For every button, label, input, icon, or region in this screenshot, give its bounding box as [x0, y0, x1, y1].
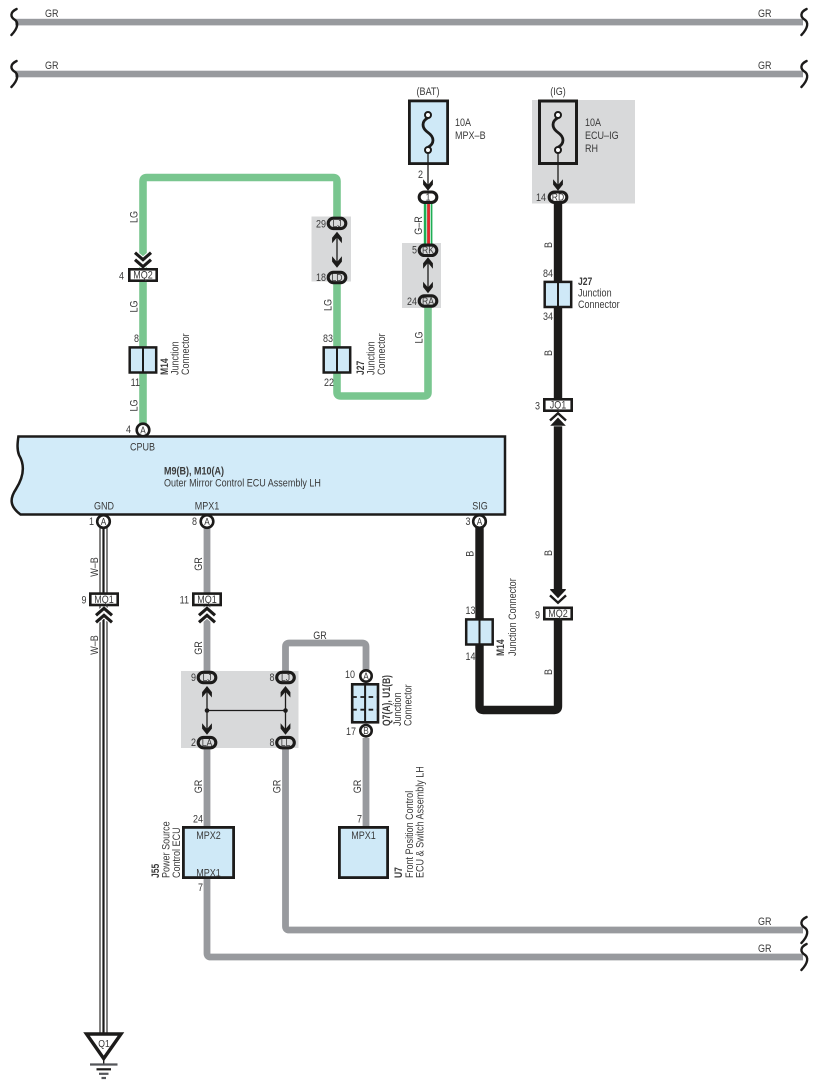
- svg-text:4: 4: [119, 271, 124, 283]
- svg-text:LJ: LJ: [332, 218, 341, 230]
- break symbol exit 1: [801, 917, 807, 943]
- svg-text:(IG): (IG): [550, 86, 566, 98]
- link bar between columns: [207, 710, 286, 712]
- svg-text:22: 22: [324, 377, 334, 389]
- svg-text:B: B: [543, 550, 555, 556]
- svg-text:4: 4: [126, 424, 131, 436]
- svg-text:MQ2: MQ2: [548, 608, 568, 620]
- svg-text:LD: LD: [332, 272, 343, 284]
- break symbol bus2 right: [801, 61, 807, 87]
- svg-text:LG: LG: [128, 301, 140, 313]
- break symbol bus2 left: [11, 61, 17, 87]
- junction dot right: [283, 708, 288, 713]
- svg-text:ECU & Switch Assembly LH: ECU & Switch Assembly LH: [415, 766, 427, 878]
- svg-text:9: 9: [82, 595, 87, 607]
- ground symbol Q1: [87, 1034, 122, 1078]
- svg-text:MQ1: MQ1: [94, 594, 114, 606]
- junction connector Q7(A), U1(B): [352, 684, 378, 722]
- svg-text:3: 3: [535, 401, 540, 413]
- arrow into oval 1: [423, 179, 433, 191]
- box JQ1: [544, 399, 571, 410]
- svg-text:B: B: [543, 350, 555, 356]
- label M14 Junction Connector (rotated, right M14): [495, 578, 519, 656]
- fuse box IG 10A ECU-IG RH: [540, 101, 577, 164]
- svg-text:W–B: W–B: [89, 557, 101, 577]
- wire LG from CPUB pin up/over to LJ: [143, 178, 337, 431]
- svg-text:9: 9: [535, 610, 540, 622]
- arrow down to LL: [281, 723, 291, 735]
- svg-text:J27: J27: [578, 276, 592, 288]
- break symbol exit 2: [801, 944, 807, 970]
- wire GR from LJ(8) up over to Q7 A: [286, 643, 367, 672]
- svg-text:24: 24: [193, 814, 203, 826]
- svg-text:10A: 10A: [585, 117, 602, 129]
- svg-text:34: 34: [543, 311, 553, 323]
- svg-text:A: A: [477, 517, 483, 528]
- svg-text:GR: GR: [193, 557, 205, 571]
- svg-text:A: A: [101, 517, 107, 528]
- ECU box M9(B) M10(A): [12, 437, 505, 515]
- wire lead from fuse BAT: [427, 152, 429, 185]
- wire B from RD down to corner and over to SIG leg: [480, 204, 559, 710]
- wire GR bus 1 (top): [15, 19, 803, 26]
- shading block LJ/LD connector: [312, 217, 352, 282]
- svg-text:GR: GR: [313, 630, 327, 642]
- svg-text:B: B: [543, 242, 555, 248]
- label J55 Power Source Control ECU (rotated): [150, 821, 183, 878]
- svg-text:MQ1: MQ1: [197, 594, 217, 606]
- svg-text:10: 10: [345, 669, 355, 681]
- svg-text:(BAT): (BAT): [417, 86, 440, 98]
- chevron into MQ2 (down): [135, 253, 151, 267]
- svg-text:SIG: SIG: [472, 501, 488, 513]
- svg-text:Control ECU: Control ECU: [171, 827, 183, 878]
- svg-text:A: A: [140, 426, 146, 437]
- svg-text:Connector: Connector: [578, 299, 620, 311]
- svg-text:13: 13: [466, 605, 476, 617]
- box MQ1 MPX1 wire: [193, 594, 220, 605]
- svg-text:9: 9: [191, 672, 196, 684]
- svg-text:14: 14: [466, 651, 476, 663]
- fuse box BAT 10A MPX-B: [409, 101, 447, 164]
- box J55 Power Source Control ECU: [183, 827, 233, 877]
- svg-text:GR: GR: [758, 916, 772, 928]
- svg-text:Junction: Junction: [578, 288, 612, 300]
- shading block RK/RA connector: [402, 243, 441, 308]
- svg-text:MPX2: MPX2: [196, 830, 221, 842]
- wire link LJ-LA thin: [206, 689, 208, 732]
- svg-text:Q1: Q1: [98, 1038, 110, 1050]
- svg-text:24: 24: [407, 296, 417, 308]
- svg-text:GR: GR: [758, 60, 772, 72]
- svg-text:RH: RH: [585, 143, 598, 155]
- svg-text:8: 8: [192, 516, 197, 528]
- wire GR MPX1 from pin to LJ: [204, 528, 211, 672]
- svg-text:10A: 10A: [455, 117, 472, 129]
- svg-text:LG: LG: [128, 211, 140, 223]
- pin circle A CPUB: [137, 424, 150, 437]
- svg-text:M9(B), M10(A): M9(B), M10(A): [164, 466, 224, 478]
- svg-text:MPX1: MPX1: [196, 868, 221, 880]
- svg-text:A: A: [363, 671, 369, 682]
- svg-text:3: 3: [466, 516, 471, 528]
- junction connector M14 (right, SIG leg): [466, 619, 493, 644]
- svg-text:LJ: LJ: [281, 672, 290, 684]
- label Q7(A), U1(B) Junction Connector (rotated): [381, 675, 415, 726]
- chevron below MQ1 on MPX1 (up): [199, 608, 215, 622]
- svg-text:18: 18: [316, 272, 326, 284]
- arrow up to LJ(8): [281, 686, 291, 698]
- svg-text:RD: RD: [552, 192, 565, 204]
- oval LJ (8): [277, 672, 295, 682]
- svg-text:1: 1: [89, 516, 94, 528]
- svg-text:17: 17: [346, 726, 356, 738]
- oval LJ (29): [328, 218, 346, 228]
- svg-text:MPX1: MPX1: [351, 830, 376, 842]
- junction connector J27 (left): [324, 347, 351, 372]
- label J27 Junction Connector (horizontal): [578, 276, 620, 311]
- svg-text:ECU–IG: ECU–IG: [585, 130, 619, 142]
- svg-text:2: 2: [191, 737, 196, 749]
- svg-text:M14: M14: [495, 639, 507, 656]
- arrow pair between LJ and LD: [336, 234, 338, 265]
- svg-text:LG: LG: [322, 299, 334, 311]
- chevron above MQ2 (down): wire break, arrow-cut wire end, thin chevron: [550, 589, 566, 607]
- wire W-B from GND pin to ground: [100, 528, 108, 1034]
- break symbol bus1 right: [801, 9, 807, 35]
- svg-text:LJ: LJ: [202, 672, 211, 684]
- svg-text:W–B: W–B: [89, 635, 101, 655]
- box MQ2 green wire: [129, 269, 156, 280]
- oval LD (18): [328, 272, 346, 282]
- box MQ1 GND wire: [90, 594, 117, 605]
- svg-text:B: B: [465, 551, 477, 557]
- svg-text:GR: GR: [271, 780, 283, 794]
- junction connector M14 (left): [130, 347, 157, 372]
- wire GR from J55 MPX1 down and right to edge: [207, 877, 803, 957]
- svg-text:G–R: G–R: [413, 216, 425, 235]
- wire link LJ-LL thin: [285, 689, 287, 732]
- svg-text:RA: RA: [422, 295, 434, 307]
- wire GR from Q7 B down to U7: [363, 738, 370, 828]
- junction connector J27 (right): [545, 282, 572, 307]
- label M14 Junction Connector (rotated): [159, 333, 192, 375]
- svg-text:8: 8: [270, 737, 275, 749]
- svg-text:CPUB: CPUB: [130, 442, 155, 454]
- wire GR from LL down and right to edge: [286, 746, 804, 930]
- svg-text:LL: LL: [281, 737, 291, 749]
- svg-text:Connector: Connector: [403, 684, 415, 726]
- fuse element IG: [553, 112, 563, 153]
- svg-text:2: 2: [418, 169, 423, 181]
- svg-text:LG: LG: [128, 400, 140, 412]
- label U7 Front Position Control ECU & Switch Assembly LH (rotated): [393, 766, 427, 878]
- fuse element BAT: [423, 112, 433, 153]
- oval LJ (9): [198, 672, 216, 682]
- oval RD (14): [549, 192, 567, 202]
- svg-text:83: 83: [323, 333, 333, 345]
- svg-text:8: 8: [134, 333, 139, 345]
- box MQ2 black wire: [544, 608, 571, 619]
- svg-text:7: 7: [357, 814, 362, 826]
- wire G-R striped red stripe: [427, 197, 430, 247]
- wire LG from LD down through J27 over to RA: [337, 283, 428, 396]
- junction dot left: [205, 708, 210, 713]
- svg-text:MPX1: MPX1: [195, 501, 220, 513]
- oval RA (24): [419, 296, 437, 306]
- svg-text:GR: GR: [758, 943, 772, 955]
- svg-text:GR: GR: [352, 780, 364, 794]
- svg-text:Connector: Connector: [180, 333, 192, 375]
- svg-text:14: 14: [536, 192, 546, 204]
- arrow pair between RK and RA: [427, 259, 429, 291]
- svg-text:84: 84: [543, 268, 553, 280]
- svg-text:GR: GR: [45, 60, 59, 72]
- break symbol bus1 left: [11, 9, 17, 35]
- chevron below MQ1 (up): [96, 608, 112, 622]
- svg-text:GR: GR: [45, 8, 59, 20]
- wire G-R striped from oval 1 to RK: green base: [424, 197, 433, 247]
- wire lead from fuse IG: [557, 152, 559, 185]
- svg-text:7: 7: [198, 882, 203, 894]
- svg-text:B: B: [543, 669, 555, 675]
- svg-text:Junction Connector: Junction Connector: [507, 578, 519, 656]
- svg-text:B: B: [363, 726, 369, 737]
- svg-text:Outer Mirror Control ECU Assem: Outer Mirror Control ECU Assembly LH: [164, 478, 321, 490]
- svg-text:A: A: [204, 517, 210, 528]
- svg-text:5: 5: [412, 245, 417, 257]
- wire GR from LA down to J55 MPX2: [204, 746, 211, 828]
- svg-text:GR: GR: [758, 8, 772, 20]
- svg-text:Connector: Connector: [376, 333, 388, 375]
- svg-text:MPX–B: MPX–B: [455, 130, 486, 142]
- svg-text:GND: GND: [94, 501, 114, 513]
- chevron below JQ1 (up): wire break, thin chevron, arrow-cut wire end: [550, 412, 566, 427]
- svg-text:RK: RK: [422, 245, 434, 257]
- svg-text:11: 11: [131, 377, 140, 389]
- oval LA (2): [198, 737, 216, 747]
- arrow up to LJ(9): [202, 686, 212, 698]
- label J27 Junction Connector (rotated): [355, 333, 388, 375]
- svg-text:11: 11: [180, 595, 189, 607]
- svg-text:29: 29: [316, 219, 326, 231]
- box U7 Front Position Control ECU: [339, 827, 387, 877]
- oval LL (8): [277, 737, 295, 747]
- svg-text:GR: GR: [193, 641, 205, 655]
- oval 1: [419, 192, 437, 202]
- arrow down to LA: [202, 723, 212, 735]
- wire G-R striped white separators: [425, 197, 428, 247]
- svg-text:JQ1: JQ1: [550, 400, 567, 412]
- svg-text:LG: LG: [413, 332, 425, 344]
- wire GR bus 2: [15, 71, 803, 78]
- svg-text:MQ2: MQ2: [133, 270, 153, 282]
- svg-text:1: 1: [426, 192, 431, 204]
- svg-text:8: 8: [270, 672, 275, 684]
- shading block IG fuse: [532, 100, 635, 204]
- arrow into oval RD: [553, 179, 563, 191]
- svg-text:GR: GR: [193, 780, 205, 794]
- oval RK (5): [419, 245, 437, 255]
- svg-text:LA: LA: [202, 737, 213, 749]
- shading block LJ/LA/LL connector: [181, 671, 299, 748]
